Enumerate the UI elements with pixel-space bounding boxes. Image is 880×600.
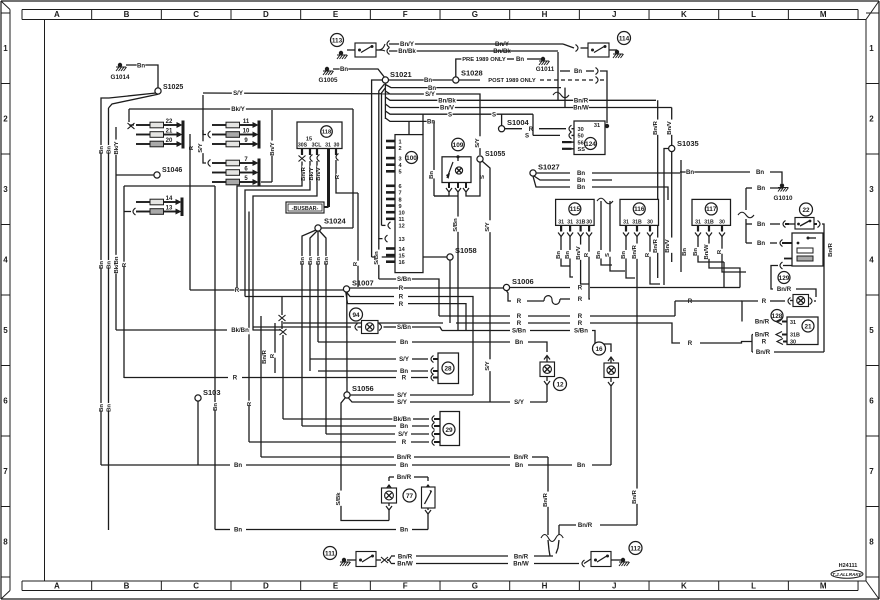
svg-text:4: 4	[869, 256, 874, 265]
wires into 29	[249, 416, 440, 447]
wire rail Bn x108	[107, 108, 115, 530]
svg-text:Bk/Bn: Bk/Bn	[114, 256, 120, 273]
svg-text:R: R	[122, 262, 128, 267]
svg-text:Bn/Bk: Bn/Bk	[493, 48, 511, 55]
wire vert x282b	[281, 321, 283, 329]
ground G1005	[319, 67, 338, 84]
svg-text:Bn/R: Bn/R	[653, 238, 659, 252]
svg-text:31B: 31B	[790, 333, 800, 339]
svg-text:129: 129	[779, 275, 790, 282]
wire Bn/R vert x261	[261, 316, 270, 457]
svg-text:Bn: Bn	[316, 257, 322, 265]
wire Bn G1005	[333, 66, 385, 78]
heater motor 116	[620, 199, 659, 225]
svg-text:14: 14	[399, 247, 406, 253]
wire Bk/Y from 118	[245, 161, 317, 297]
svg-text:Bn: Bn	[308, 257, 314, 265]
node S1006	[503, 277, 533, 291]
svg-text:Bn: Bn	[596, 251, 602, 259]
svg-text:Bn: Bn	[424, 77, 432, 84]
circle 16	[593, 342, 606, 355]
wire Bn/V from 118	[253, 161, 324, 331]
svg-text:Bn/R: Bn/R	[755, 319, 770, 326]
svg-text:13: 13	[166, 205, 173, 211]
svg-text:8: 8	[869, 538, 874, 547]
svg-text:9: 9	[399, 204, 402, 210]
node S1025	[155, 84, 183, 94]
svg-text:S: S	[525, 133, 529, 140]
svg-text:T.J.ALLRAKE: T.J.ALLRAKE	[832, 572, 862, 577]
svg-text:S: S	[480, 175, 486, 179]
svg-text:Bn/W: Bn/W	[397, 561, 413, 568]
svg-text:R: R	[645, 252, 651, 257]
wire Bn to G1010	[680, 169, 782, 183]
switch 112 circle	[629, 542, 642, 555]
wiper motor 28	[438, 353, 459, 384]
svg-text:R: R	[247, 401, 253, 406]
svg-text:31B: 31B	[576, 219, 586, 225]
wire drop x376 to pin13	[379, 84, 385, 239]
wire R from 118 pin30	[335, 160, 358, 193]
svg-text:S/Bn: S/Bn	[512, 328, 526, 335]
svg-text:4: 4	[3, 256, 8, 265]
wire PRE 1989 bracket	[456, 56, 543, 77]
wire Bn to x607	[560, 68, 607, 124]
svg-text:S: S	[492, 111, 496, 118]
svg-text:R: R	[762, 298, 767, 305]
wire Bn/R bottom	[752, 349, 824, 356]
svg-text:S/Y: S/Y	[397, 399, 407, 406]
svg-text:R: R	[578, 320, 583, 327]
svg-text:Bn/R: Bn/R	[574, 98, 589, 105]
connector 21	[787, 317, 818, 345]
wire S1058 drop	[449, 260, 451, 323]
svg-text:8: 8	[3, 538, 8, 547]
svg-text:Bn/R: Bn/R	[543, 492, 549, 506]
ground G1014	[111, 63, 130, 81]
wire Bk/Bn drop x283	[282, 335, 284, 419]
wire into lamp94	[253, 324, 358, 331]
relay 118	[297, 122, 342, 149]
svg-text:S/Y: S/Y	[514, 399, 524, 406]
svg-text:S1046: S1046	[162, 167, 182, 174]
svg-text:77: 77	[406, 493, 414, 500]
wire drop x371 to S1058	[372, 80, 383, 257]
svg-text:Bn: Bn	[107, 146, 113, 154]
hook pin13	[379, 235, 388, 244]
svg-text:Bk/Y: Bk/Y	[309, 167, 315, 180]
wire row S1007-S1006 y288	[350, 285, 504, 292]
node S1004	[499, 118, 530, 132]
svg-text:S1028: S1028	[461, 69, 483, 78]
svg-text:G: G	[472, 582, 478, 591]
wire S1046 left	[116, 174, 154, 176]
svg-text:D: D	[263, 10, 269, 19]
svg-text:R: R	[399, 301, 404, 308]
svg-text:109: 109	[453, 142, 464, 149]
svg-text:R: R	[402, 439, 407, 446]
svg-text:R: R	[399, 285, 404, 292]
svg-text:Bn/R: Bn/R	[828, 242, 834, 256]
ground 111	[340, 558, 351, 566]
svg-text:Bn/Y: Bn/Y	[495, 41, 509, 48]
svg-text:H: H	[542, 582, 548, 591]
node S1058	[447, 246, 477, 260]
svg-text:Bk/Bn: Bk/Bn	[231, 327, 249, 334]
node S103	[195, 388, 221, 465]
wire S/Y drop S1055	[482, 161, 493, 402]
svg-text:Bn/W: Bn/W	[573, 105, 589, 112]
wire S1004 up	[501, 114, 503, 125]
svg-text:Bn: Bn	[234, 462, 242, 469]
svg-text:114: 114	[619, 35, 630, 42]
wire R row y303 from S1007	[346, 292, 466, 331]
svg-text:8: 8	[399, 197, 402, 203]
fork into 114	[563, 44, 588, 52]
svg-text:118: 118	[322, 130, 332, 136]
fuse 11 10 9 cluster	[203, 119, 259, 149]
svg-text:31: 31	[790, 320, 796, 326]
connector X y318	[279, 315, 286, 321]
svg-text:Bn: Bn	[400, 339, 408, 346]
svg-text:16: 16	[399, 260, 405, 266]
svg-text:Bn/R: Bn/R	[756, 349, 771, 356]
stubs 124	[562, 142, 572, 149]
svg-text:R: R	[517, 298, 522, 305]
svg-text:G1005: G1005	[319, 77, 338, 84]
wire S1021 stub below node	[384, 83, 386, 119]
node S1056	[344, 384, 374, 398]
svg-text:Bn: Bn	[400, 527, 408, 534]
svg-text:L: L	[751, 10, 756, 19]
node S1055	[475, 136, 505, 179]
svg-text:Bn/Bk: Bn/Bk	[438, 98, 456, 105]
svg-text:21: 21	[804, 323, 812, 330]
wires under 116	[621, 237, 660, 526]
svg-text:116: 116	[634, 206, 645, 213]
svg-text:Bn: Bn	[213, 403, 219, 411]
wire rail Bk/Bn x116	[114, 127, 122, 330]
svg-text:2: 2	[3, 115, 8, 124]
node S1035	[667, 108, 699, 263]
svg-text:SS: SS	[578, 147, 586, 153]
svg-text:124: 124	[585, 141, 596, 148]
wire Bn row y342	[318, 339, 547, 352]
svg-text:E: E	[333, 582, 339, 591]
svg-text:Bk/Y: Bk/Y	[231, 106, 245, 113]
wire S/Y row y402	[348, 398, 547, 407]
ground G1011	[536, 57, 555, 73]
svg-text:113: 113	[332, 37, 343, 44]
node S1007	[343, 279, 373, 293]
svg-text:S/Y: S/Y	[485, 222, 491, 232]
svg-text:S/Bn: S/Bn	[574, 328, 588, 335]
svg-text:S1006: S1006	[512, 277, 534, 286]
svg-text:Bn: Bn	[577, 184, 585, 191]
svg-text:S1055: S1055	[485, 151, 505, 158]
wire S/Bn drop x379	[374, 244, 382, 279]
circle 129	[778, 272, 790, 284]
svg-text:Bn: Bn	[99, 146, 105, 154]
svg-text:Bn/Bk: Bn/Bk	[398, 48, 416, 55]
svg-text:Bn: Bn	[757, 185, 765, 192]
svg-text:10: 10	[243, 128, 250, 134]
wire S/Y row y94 right	[385, 91, 480, 155]
svg-text:C: C	[193, 582, 199, 591]
svg-text:Bn: Bn	[515, 339, 523, 346]
switch 111 circle	[324, 547, 337, 560]
svg-text:S1025: S1025	[163, 84, 183, 91]
svg-text:B: B	[124, 10, 130, 19]
svg-text:117: 117	[706, 206, 717, 213]
svg-text:B: B	[124, 582, 130, 591]
heater motor 115	[556, 199, 595, 225]
svg-text:21: 21	[166, 128, 173, 134]
svg-text:Bn: Bn	[99, 404, 105, 412]
wire R vert x275	[270, 323, 278, 373]
wire Bn row y188	[746, 185, 782, 192]
svg-text:Bn: Bn	[516, 56, 524, 63]
svg-text:Bn/W: Bn/W	[513, 561, 529, 568]
svg-text:A: A	[54, 582, 60, 591]
svg-text:Bn: Bn	[682, 248, 688, 256]
svg-text:31B: 31B	[704, 219, 714, 225]
svg-text:Bn: Bn	[757, 240, 765, 247]
bracket x752	[751, 335, 753, 353]
wire R row y288 right	[510, 285, 740, 292]
drawing number H24111	[839, 563, 858, 569]
wire S to 124 pin50	[524, 114, 571, 140]
svg-text:G1010: G1010	[774, 195, 793, 202]
wire Bn S1027 c	[533, 176, 668, 200]
svg-text:R: R	[717, 249, 723, 254]
circle 128	[771, 310, 783, 322]
svg-text:S/Y: S/Y	[475, 138, 481, 148]
lamp 94 box	[358, 321, 379, 334]
wire Bn row y87.6	[385, 85, 561, 92]
wire rail R x190	[189, 134, 191, 290]
wire Bn S1027 a	[536, 170, 680, 177]
circle 12	[554, 378, 567, 391]
svg-text:Bn: Bn	[400, 423, 408, 430]
svg-text:R: R	[233, 375, 238, 382]
wire rail R x249	[247, 212, 255, 443]
wire Bn/V vert x664 from S1035	[664, 149, 673, 286]
svg-text:PRE 1989 ONLY: PRE 1989 ONLY	[462, 57, 506, 63]
svg-text:R: R	[402, 375, 407, 382]
svg-text:15: 15	[399, 253, 405, 259]
svg-text:Bn: Bn	[234, 527, 242, 534]
svg-text:Bn/R: Bn/R	[397, 474, 412, 481]
svg-text:Bn: Bn	[429, 171, 435, 179]
svg-text:11: 11	[243, 119, 250, 125]
wire vert x681	[681, 160, 690, 272]
svg-text:Bn/V: Bn/V	[576, 246, 582, 259]
lamp 77	[382, 488, 397, 503]
svg-text:S/Y: S/Y	[398, 431, 408, 438]
wire rail R x124	[122, 186, 130, 378]
svg-text:Bn: Bn	[107, 404, 113, 412]
wires into 28	[124, 356, 438, 382]
svg-text:Bn/R: Bn/R	[397, 454, 412, 461]
fork 111	[387, 557, 391, 564]
svg-text:Bn: Bn	[756, 169, 764, 176]
wire R row y296 left	[245, 296, 344, 298]
lamp 94 out	[379, 324, 442, 332]
switch 22 circle	[800, 203, 813, 216]
svg-text:5: 5	[3, 326, 8, 335]
svg-text:G1014: G1014	[111, 74, 130, 81]
svg-text:Bn: Bn	[577, 462, 585, 469]
switch 114 box	[588, 43, 609, 57]
pins 116	[623, 225, 653, 236]
wires right risers	[724, 262, 740, 288]
wire Bn row y465	[101, 462, 611, 469]
svg-text:Bn: Bn	[577, 170, 585, 177]
wire S/Y row y395	[350, 392, 473, 399]
svg-text:30S: 30S	[298, 143, 308, 149]
svg-text:7: 7	[3, 467, 8, 476]
fuse 7 6 5 cluster	[203, 157, 272, 187]
svg-text:15: 15	[306, 137, 312, 143]
wire lamp77 bottom	[386, 503, 392, 521]
svg-text:Bn: Bn	[565, 251, 571, 259]
svg-text:31: 31	[325, 143, 331, 149]
ground G1010	[774, 183, 793, 202]
svg-text:Bn/Y: Bn/Y	[270, 142, 276, 155]
ground 112	[611, 558, 630, 566]
svg-text:K: K	[681, 10, 687, 19]
svg-text:R: R	[578, 285, 583, 292]
svg-text:22: 22	[802, 207, 810, 214]
wires under 115	[556, 237, 592, 298]
svg-text:Bn/V: Bn/V	[667, 121, 673, 134]
lamp 94 circle	[350, 308, 363, 321]
wire Bn G1014 to S1025	[126, 62, 158, 88]
wire R to 124 pin30	[505, 125, 572, 133]
wire R row y323	[283, 320, 752, 347]
svg-text:Bn: Bn	[340, 66, 348, 73]
svg-text:S/Y: S/Y	[425, 91, 435, 98]
wire R to lamp129	[742, 298, 791, 322]
svg-text:D: D	[263, 582, 269, 591]
svg-text:H: H	[542, 10, 548, 19]
svg-text:7: 7	[869, 467, 874, 476]
svg-text:Bn/R: Bn/R	[514, 454, 529, 461]
switch 112 box	[591, 552, 611, 567]
wire Bn/R vert x656	[653, 100, 661, 278]
svg-text:3CL: 3CL	[312, 143, 323, 149]
switch 113 circle	[331, 34, 344, 47]
svg-text:J: J	[612, 10, 616, 19]
connector X y332	[280, 329, 287, 335]
svg-text:14: 14	[166, 196, 173, 202]
wire 120 bottom bracket	[771, 262, 816, 297]
svg-text:3: 3	[399, 156, 402, 162]
wire R y301 from left	[675, 298, 742, 316]
svg-text:Bn/R: Bn/R	[578, 522, 593, 529]
wire Bn right of 100	[429, 121, 437, 196]
svg-text:Bn/R: Bn/R	[301, 166, 307, 180]
svg-text:Bn: Bn	[107, 261, 113, 269]
svg-text:S1056: S1056	[352, 384, 374, 393]
svg-text:S/Bn: S/Bn	[397, 276, 411, 283]
wires S1024 drops	[300, 230, 332, 434]
svg-text:R: R	[688, 340, 693, 347]
wire R loop S1006	[507, 291, 545, 306]
svg-text:29: 29	[445, 427, 453, 434]
svg-text:30: 30	[334, 143, 340, 149]
svg-text:L: L	[751, 582, 756, 591]
svg-text:30: 30	[719, 219, 725, 225]
bracket under 109	[434, 162, 480, 196]
hook 112	[582, 559, 591, 567]
svg-text:31: 31	[623, 219, 629, 225]
wire Bn row y529	[215, 527, 428, 534]
svg-text:20: 20	[166, 138, 173, 144]
wire Bn/R into 21 pin31	[754, 319, 787, 326]
svg-text:Bn: Bn	[324, 257, 330, 265]
svg-text:-BUSBAR-: -BUSBAR-	[292, 206, 319, 212]
fuse 22 21 20 cluster	[128, 109, 184, 149]
wire POST 1989 dashed	[459, 77, 607, 85]
lamp 129 box	[790, 295, 809, 307]
wire R row y290	[190, 287, 347, 294]
wire Bn/Y riser x272	[270, 110, 278, 182]
svg-text:S: S	[448, 111, 452, 118]
fuel sender 109	[442, 138, 471, 182]
node S1028	[453, 69, 483, 84]
svg-text:Bn/V: Bn/V	[665, 239, 671, 252]
node S1046	[154, 167, 182, 178]
svg-text:115: 115	[570, 206, 581, 213]
wire Bn/V row y107	[385, 104, 671, 112]
wiper motor 29	[440, 412, 460, 446]
wire R into 21 pin30	[761, 339, 787, 346]
svg-text:31: 31	[695, 219, 701, 225]
svg-text:Bn: Bn	[515, 462, 523, 469]
wire Bn/R into 21 pin31B	[752, 332, 787, 339]
svg-text:10: 10	[399, 211, 405, 217]
svg-text:Bn: Bn	[577, 177, 585, 184]
svg-text:Bn/V: Bn/V	[316, 167, 322, 180]
svg-text:R: R	[517, 320, 522, 327]
node S1027	[530, 163, 560, 177]
svg-text:Bn/R: Bn/R	[632, 489, 638, 503]
switch 114 circle	[618, 32, 631, 45]
svg-text:R: R	[584, 252, 590, 257]
svg-text:1: 1	[3, 44, 8, 53]
svg-text:S/Bn: S/Bn	[374, 251, 380, 265]
busbar	[286, 202, 324, 213]
node S1024	[315, 217, 347, 232]
svg-text:94: 94	[352, 312, 360, 319]
svg-text:30: 30	[578, 127, 584, 133]
wire S1007 to S1056	[346, 292, 348, 392]
svg-text:Bn: Bn	[693, 248, 699, 256]
squiggle+verts x601 x610	[596, 198, 625, 271]
wire Bn to 22	[746, 221, 795, 229]
svg-text:Bk/Bn: Bk/Bn	[393, 416, 411, 423]
ground for 113	[337, 51, 348, 59]
svg-text:S: S	[605, 253, 611, 257]
wire rheostat77 bottom	[425, 508, 431, 530]
svg-text:S1004: S1004	[507, 118, 530, 127]
svg-text:31: 31	[594, 123, 600, 129]
switch 22 box	[795, 218, 814, 230]
svg-text:G1011: G1011	[536, 66, 555, 73]
connector X 30S	[299, 156, 306, 162]
